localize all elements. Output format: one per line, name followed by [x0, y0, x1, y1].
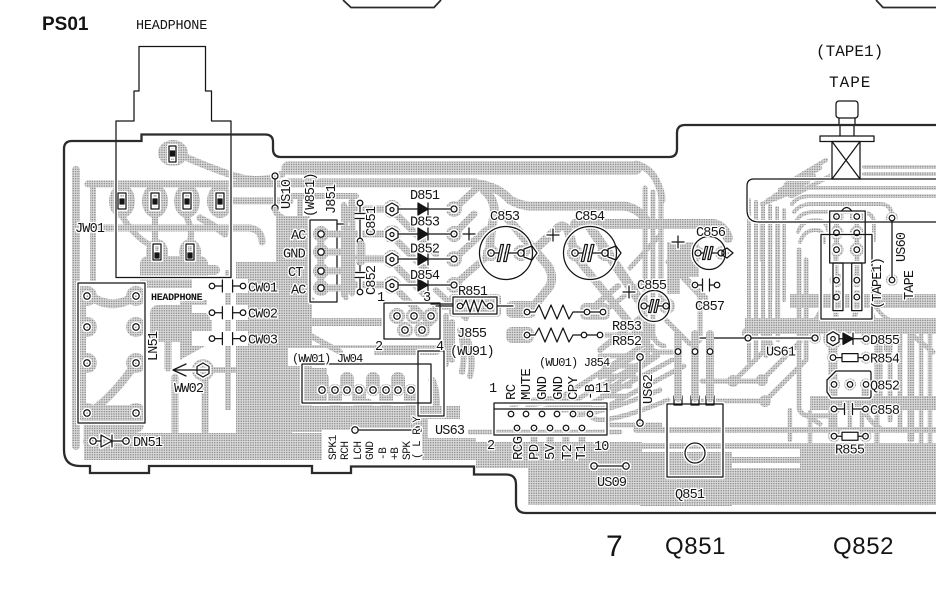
svg-text:7: 7	[606, 530, 623, 563]
halo pass for ink	[78, 47, 936, 478]
wire C851/C852 vertical	[349, 202, 356, 292]
svg-text:D854: D854	[410, 269, 440, 284]
svg-text:Q852: Q852	[870, 380, 900, 395]
wire R853 right arm	[604, 284, 640, 335]
wire right component column	[833, 345, 866, 434]
wire right edge verticals	[912, 326, 930, 452]
svg-text:PD: PD	[527, 444, 543, 460]
svg-text:-B: -B	[378, 447, 390, 460]
svg-text:3: 3	[423, 291, 431, 306]
wire diag J851 to CW plane	[290, 300, 312, 320]
traces through Q851	[636, 430, 936, 472]
wire above box top right	[864, 167, 936, 174]
svg-text:TAPE: TAPE	[903, 270, 918, 300]
wire right of LN51	[168, 342, 205, 432]
left hatch region beside CW rows	[180, 300, 207, 360]
blob R853 left	[506, 301, 536, 318]
vertical trace between CW bars	[225, 270, 231, 410]
wire US60 pad stems	[836, 252, 857, 330]
wire band down to LN51	[90, 188, 96, 280]
svg-text:CW02: CW02	[248, 308, 278, 323]
diode right pad arms diagonal up-right	[454, 187, 492, 285]
svg-text:(WW01) JW04: (WW01) JW04	[292, 352, 363, 366]
svg-text:US62: US62	[642, 374, 657, 404]
C855 blobs	[636, 299, 650, 313]
wire C851-C852 link	[357, 245, 366, 261]
wire LN51 interconnects	[82, 290, 136, 413]
wire vertical bundle C854 to fan	[645, 188, 661, 340]
svg-text:R852: R852	[612, 335, 642, 350]
wire C853 through diagonal	[504, 214, 552, 306]
wire Q851 leg stems	[678, 334, 710, 398]
bottom band right deep	[528, 468, 936, 505]
blob below jack pads	[140, 256, 208, 288]
white strips for CW rows	[192, 279, 248, 293]
svg-text:US63: US63	[435, 424, 465, 439]
wire TAPE xbox diagonals down-left	[762, 160, 830, 204]
center top band 1	[288, 162, 636, 175]
wire right verticals to bends	[799, 250, 820, 424]
plane below J851	[276, 300, 310, 342]
wire left edge vertical trace	[72, 170, 80, 446]
WW02 pad blob	[192, 359, 214, 381]
JW04 interior left blob	[305, 368, 327, 401]
blob under HEADPHONE label	[150, 305, 212, 342]
band under J855	[292, 345, 436, 355]
wire C854 through diagonal to C855	[588, 224, 642, 304]
hex pad arms	[354, 209, 386, 285]
wire diag C856 to US62 area	[630, 235, 706, 330]
wire above bottom band center	[470, 425, 660, 432]
wire jack internal stems	[122, 216, 191, 246]
C856 area blobs	[690, 246, 704, 260]
wire US60 columns	[837, 216, 857, 250]
svg-text:R851: R851	[458, 285, 488, 300]
svg-text:PS01: PS01	[42, 14, 89, 35]
wire US10 arm down	[275, 210, 290, 220]
wire nested L traces to right	[790, 188, 936, 196]
wire band jog down x500	[480, 184, 646, 220]
overlay traces painted above ink (like target)	[275, 196, 713, 398]
svg-text:MUTE: MUTE	[519, 369, 535, 400]
wire J851 region verticals	[300, 200, 344, 295]
wire band below pads	[100, 228, 262, 242]
wire leg horizontals with vias	[702, 381, 765, 401]
svg-text:C856: C856	[696, 226, 726, 241]
svg-text:GND: GND	[365, 441, 377, 460]
svg-text:RCG: RCG	[511, 436, 527, 460]
svg-text:RC: RC	[504, 384, 520, 400]
svg-text:(WU91): (WU91)	[450, 345, 494, 360]
board outline left and bottom	[64, 149, 936, 513]
svg-text:RCH: RCH	[340, 441, 352, 460]
LN51 pads blobs	[77, 286, 146, 423]
wire verticals right of J851	[346, 208, 352, 298]
svg-text:J855: J855	[457, 327, 487, 342]
wire pad row to right	[228, 198, 290, 205]
svg-text:US61: US61	[766, 346, 796, 361]
svg-text:US10: US10	[280, 179, 295, 209]
white for pin labels JW04	[322, 430, 422, 463]
top notch left	[343, 0, 441, 8]
wire J851 pad blobs over box	[314, 227, 328, 241]
svg-text:AC: AC	[291, 284, 306, 299]
band at right components	[810, 396, 936, 410]
wire C854 pad down diagonal	[577, 258, 646, 342]
wire diag below diodes	[300, 290, 466, 352]
svg-text:+B: +B	[390, 447, 402, 460]
wire band above pad row	[88, 181, 288, 188]
wire J851 pad stems right	[330, 234, 352, 288]
wire C855 down-left	[600, 318, 640, 350]
svg-text:Q851: Q851	[675, 488, 705, 503]
wire left jack fill	[108, 218, 225, 234]
wire LN51 inner fill	[95, 299, 128, 304]
pad ovals jack row	[109, 184, 135, 218]
svg-text:C854: C854	[575, 210, 605, 225]
svg-text:GND: GND	[551, 376, 567, 400]
svg-text:C853: C853	[490, 210, 520, 225]
wire band1 end jog	[636, 164, 662, 200]
svg-text:US60: US60	[895, 232, 910, 262]
right bottom vertical runs	[880, 334, 910, 440]
JW04 bottom arms	[368, 403, 425, 438]
svg-text:HEADPHONE: HEADPHONE	[151, 293, 203, 304]
svg-text:D852: D852	[410, 242, 440, 257]
wire C853 left pad feed	[484, 190, 494, 250]
svg-text:C857: C857	[695, 300, 725, 315]
svg-text:1: 1	[377, 291, 385, 306]
blob R853 right	[580, 303, 610, 320]
wire box verticals down	[762, 222, 778, 340]
svg-text:Q852: Q852	[833, 533, 894, 560]
J851 surround plane	[276, 216, 310, 304]
blob R851 backing	[449, 294, 501, 317]
svg-text:WW02: WW02	[174, 382, 204, 397]
R851 left arm	[436, 302, 456, 310]
svg-text:-B: -B	[583, 384, 599, 400]
C853 ring blobs	[483, 245, 499, 261]
wire C853 hex to C854 pad	[533, 226, 574, 251]
svg-text:D851: D851	[410, 189, 440, 204]
center top band 2	[288, 179, 476, 188]
svg-text:C851: C851	[365, 206, 380, 236]
svg-text:10: 10	[594, 440, 609, 455]
J851 inner pads	[313, 226, 329, 242]
svg-text:R855: R855	[835, 444, 865, 459]
svg-text:LCH: LCH	[353, 441, 365, 460]
bottom band left	[84, 433, 476, 460]
wire vertical bundle below xbox	[749, 200, 784, 362]
jack lower pads	[146, 239, 168, 265]
blob R852 left	[506, 327, 534, 343]
svg-text:GND: GND	[283, 248, 306, 263]
svg-text:LN51: LN51	[147, 331, 162, 361]
svg-text:GND: GND	[535, 376, 551, 400]
Q851 leg rings over stems	[675, 349, 713, 355]
right horizontal band above US61	[790, 294, 936, 308]
white for WW01 JW04 text	[288, 348, 374, 366]
hex pad blobs	[383, 200, 401, 218]
svg-text:(WU01) J854: (WU01) J854	[539, 356, 610, 370]
svg-text:CW03: CW03	[248, 334, 278, 349]
wire vertical bundle bends	[645, 334, 672, 352]
band below JW04	[292, 406, 460, 432]
svg-text:D855: D855	[870, 334, 900, 349]
svg-text:2: 2	[375, 340, 383, 355]
svg-text:AC: AC	[291, 229, 306, 244]
wire jack bottom blob spread	[150, 270, 215, 318]
svg-text:CPY: CPY	[566, 375, 582, 400]
JW04 pads and stems	[315, 372, 418, 408]
white for US63	[428, 419, 476, 438]
svg-text:Q851: Q851	[665, 533, 726, 560]
svg-text:US09: US09	[597, 476, 627, 491]
svg-text:2: 2	[487, 439, 495, 454]
board outline top	[64, 125, 936, 157]
svg-text:CW01: CW01	[248, 282, 278, 297]
svg-text:R854: R854	[870, 353, 900, 368]
DN51 pad blobs	[83, 432, 103, 450]
svg-text:R853: R853	[612, 320, 642, 335]
wire via diagonals up-right	[733, 342, 806, 401]
svg-text:C855: C855	[637, 279, 667, 294]
wire bottom right fill verticals	[756, 334, 862, 442]
diode row diag traces	[398, 216, 436, 323]
wire band y195	[292, 193, 356, 199]
blob LN51 bottom	[88, 405, 144, 433]
svg-text:DN51: DN51	[133, 436, 163, 451]
via dots	[727, 375, 739, 387]
svg-text:(LRY: (LRY	[412, 411, 424, 459]
svg-text:T1: T1	[574, 444, 590, 460]
CW plane left block	[236, 262, 312, 414]
wire band lower level	[575, 224, 728, 238]
svg-text:4: 4	[436, 340, 444, 355]
svg-text:1: 1	[489, 382, 497, 397]
svg-text:CT: CT	[288, 266, 303, 281]
J854 bottom stems	[517, 428, 582, 446]
wire R853 right arm up	[592, 286, 618, 308]
svg-text:HEADPHONE: HEADPHONE	[136, 19, 207, 34]
connector J-TAPE pad blobs	[691, 210, 898, 345]
svg-text:J851: J851	[325, 184, 340, 214]
svg-text:D853: D853	[410, 216, 440, 231]
svg-text:SPK1: SPK1	[328, 434, 340, 460]
svg-text:5V: 5V	[543, 443, 559, 460]
J854 fan from upper right	[511, 342, 684, 420]
top notch right	[876, 0, 936, 8]
wire JW04 sub-rect area	[432, 380, 437, 410]
svg-text:(W851): (W851)	[304, 173, 319, 217]
wire under C855	[640, 300, 700, 364]
wire fan trace ends	[600, 356, 642, 396]
svg-text:C858: C858	[870, 404, 900, 419]
right horizontal band below US61	[745, 318, 936, 334]
wire below LN51 to DN51	[87, 415, 136, 438]
wire top pad blob and arm	[158, 140, 188, 166]
wire extra J854 fan	[600, 346, 658, 388]
svg-text:(TAPE1): (TAPE1)	[871, 258, 886, 309]
svg-text:JW01: JW01	[75, 222, 105, 237]
wire J855 to J854 verticals	[446, 316, 472, 376]
diode right pad blobs	[446, 201, 462, 217]
right component pad blobs	[823, 329, 843, 349]
svg-text:TAPE: TAPE	[829, 74, 871, 92]
J851 pad rings over traces	[318, 231, 324, 291]
bottom band mid	[476, 442, 642, 468]
J855 pads	[389, 308, 405, 324]
svg-text:(TAPE1): (TAPE1)	[816, 43, 883, 61]
wire below US60 fan	[800, 300, 890, 350]
